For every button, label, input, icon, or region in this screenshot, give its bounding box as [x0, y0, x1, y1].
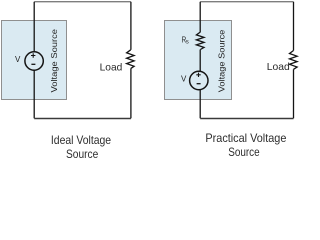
resistor load (ideal): [127, 50, 135, 69]
wire bottom (practical loop): [200, 118, 293, 120]
minus marking V1: [31, 63, 35, 65]
svg-text:Load: Load: [267, 61, 290, 73]
svg-text:Source: Source: [228, 145, 260, 159]
svg-text:Practical Voltage: Practical Voltage: [205, 131, 286, 145]
minus marking V2: [197, 83, 201, 85]
ideal source shaded body box: [2, 21, 67, 100]
svg-text:V: V: [15, 55, 21, 64]
svg-text:Voltage Source: Voltage Source: [216, 29, 226, 92]
wire left lower (ideal loop): [33, 70, 35, 118]
wire top (practical loop): [200, 1, 293, 3]
wire left upper (ideal loop): [33, 2, 35, 52]
voltage source V2 circle: [190, 71, 208, 89]
wire bottom (ideal loop): [34, 118, 131, 120]
practical source shaded body box: [165, 21, 232, 100]
wire right upper (ideal loop): [130, 2, 132, 50]
resistor load (practical): [290, 51, 298, 70]
resistor Rs (internal resistance): [196, 32, 204, 50]
svg-text:Source: Source: [66, 147, 99, 161]
svg-text:V: V: [181, 75, 187, 84]
svg-text:Load: Load: [100, 61, 123, 73]
svg-text:Ideal Voltage: Ideal Voltage: [51, 133, 111, 147]
wire right upper (practical loop): [293, 2, 295, 51]
wire right lower (practical loop): [293, 69, 295, 118]
svg-text:s: s: [186, 40, 189, 46]
wire left upper (practical loop): [199, 2, 201, 32]
wire right lower (ideal loop): [130, 69, 132, 119]
wire top (ideal loop): [34, 1, 131, 3]
voltage source V1 circle: [25, 52, 43, 70]
wire middle (practical loop, Rs to V2): [199, 50, 201, 72]
svg-text:Voltage Source: Voltage Source: [49, 29, 59, 93]
plus marking V1: [31, 53, 35, 57]
wire left lower (practical loop): [199, 90, 201, 119]
plus marking V2: [196, 73, 200, 77]
